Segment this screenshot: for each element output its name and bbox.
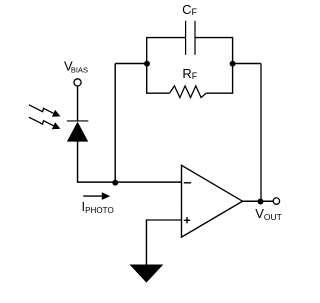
wire non-inverting to ground xyxy=(145,220,147,265)
op-amp minus sign xyxy=(184,182,191,184)
wire capacitor branch left xyxy=(146,38,185,64)
wire feedback right vertical xyxy=(260,64,262,202)
ground xyxy=(130,265,164,283)
wire resistor branch left xyxy=(146,64,169,94)
svg-text:IPHOTO: IPHOTO xyxy=(82,199,114,215)
wire feedback left vertical xyxy=(114,64,116,183)
light arrow 1 xyxy=(29,105,54,114)
wire non-inverting input xyxy=(146,219,182,221)
photodiode D1 triangle xyxy=(67,122,88,142)
svg-text:RF: RF xyxy=(182,66,197,81)
op-amp plus sign xyxy=(184,217,190,223)
op-amp U1 xyxy=(182,165,243,237)
wire VBIAS to photodiode xyxy=(77,86,79,121)
light arrow 2 xyxy=(29,117,54,126)
junction left feedback node xyxy=(144,61,150,67)
current arrow IPHOTO xyxy=(83,195,102,197)
svg-text:VBIAS: VBIAS xyxy=(64,59,88,75)
capacitor CF xyxy=(186,21,195,55)
junction output node xyxy=(258,199,264,205)
wire right feedback node to output branch xyxy=(233,63,261,65)
terminal VBIAS xyxy=(74,79,81,86)
wire resistor branch right xyxy=(206,64,233,94)
terminal VOUT xyxy=(273,198,279,204)
wire capacitor branch right xyxy=(195,38,233,64)
svg-text:CF: CF xyxy=(182,2,197,17)
photodiode D1 cathode bar xyxy=(67,120,89,122)
wire inverting input xyxy=(77,181,182,183)
svg-text:VOUT: VOUT xyxy=(255,206,282,222)
resistor RF xyxy=(170,86,207,98)
wire node A top to left feedback node xyxy=(115,63,147,65)
wire photodiode to inverting node xyxy=(77,142,79,183)
junction node A xyxy=(112,180,118,186)
junction right feedback node xyxy=(230,61,236,67)
wire op-amp output xyxy=(243,200,274,202)
